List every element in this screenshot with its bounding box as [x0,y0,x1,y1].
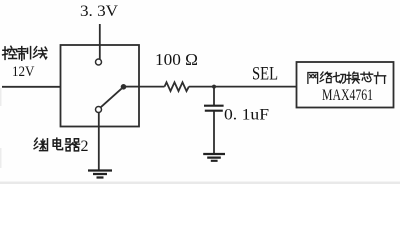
relay lead to ground [98,113,100,170]
svg-text:0. 1uF: 0. 1uF [224,107,269,124]
svg-text:100 Ω: 100 Ω [155,50,198,69]
ground (relay) [88,171,112,178]
网 [308,73,318,84]
switch lever [101,89,122,108]
label 继电器2 [34,138,79,151]
换 [347,72,360,83]
capacitor lead top [213,87,215,106]
chip U MAX4761 box [297,62,394,108]
络 [320,72,332,83]
scan smudge bottom edge [0,182,400,185]
wire box to resistor [139,86,165,88]
wire from 3.3V down to relay contact [99,24,101,59]
relay K (box) [61,45,140,127]
制 [18,47,31,61]
label 网络切换芯片 [308,72,386,84]
junction dot on throw [121,84,127,90]
label 控制线 [3,46,47,60]
片 [374,72,385,83]
resistor R 100ohm zigzag [165,82,189,91]
控 [3,46,17,59]
contact common circle [96,107,102,113]
svg-text:2: 2 [81,138,89,155]
电 [53,138,62,150]
wire resistor to chip [189,86,297,88]
capacitor lead bottom [213,112,215,154]
svg-text:3. 3V: 3. 3V [80,3,118,20]
contact top (NO) circle [96,59,102,65]
svg-text:SEL: SEL [252,64,278,85]
ground (capacitor) [203,154,225,161]
继 [34,138,47,150]
scan smudge left edge [0,88,2,106]
线 [33,47,47,59]
器 [66,139,80,151]
svg-text:12V: 12V [12,64,35,80]
capacitor C 0.1uF plates [204,105,224,107]
芯 [361,72,373,81]
control wire [2,86,61,88]
wire dot to box edge [124,86,140,88]
切 [334,73,346,84]
svg-text:MAX4761: MAX4761 [322,87,373,104]
node junction at capacitor [212,85,216,89]
